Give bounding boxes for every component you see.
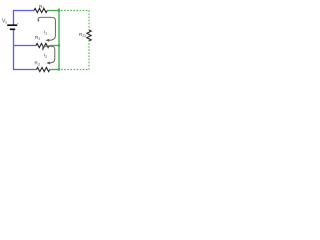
svg-text:R2: R2	[35, 35, 40, 41]
svg-text:i1: i1	[44, 29, 47, 35]
svg-text:+: +	[17, 22, 19, 26]
svg-text:i2: i2	[44, 53, 47, 59]
svg-text:R3: R3	[35, 61, 40, 67]
svg-text:Vs: Vs	[2, 19, 7, 25]
svg-text:R23: R23	[79, 32, 86, 38]
